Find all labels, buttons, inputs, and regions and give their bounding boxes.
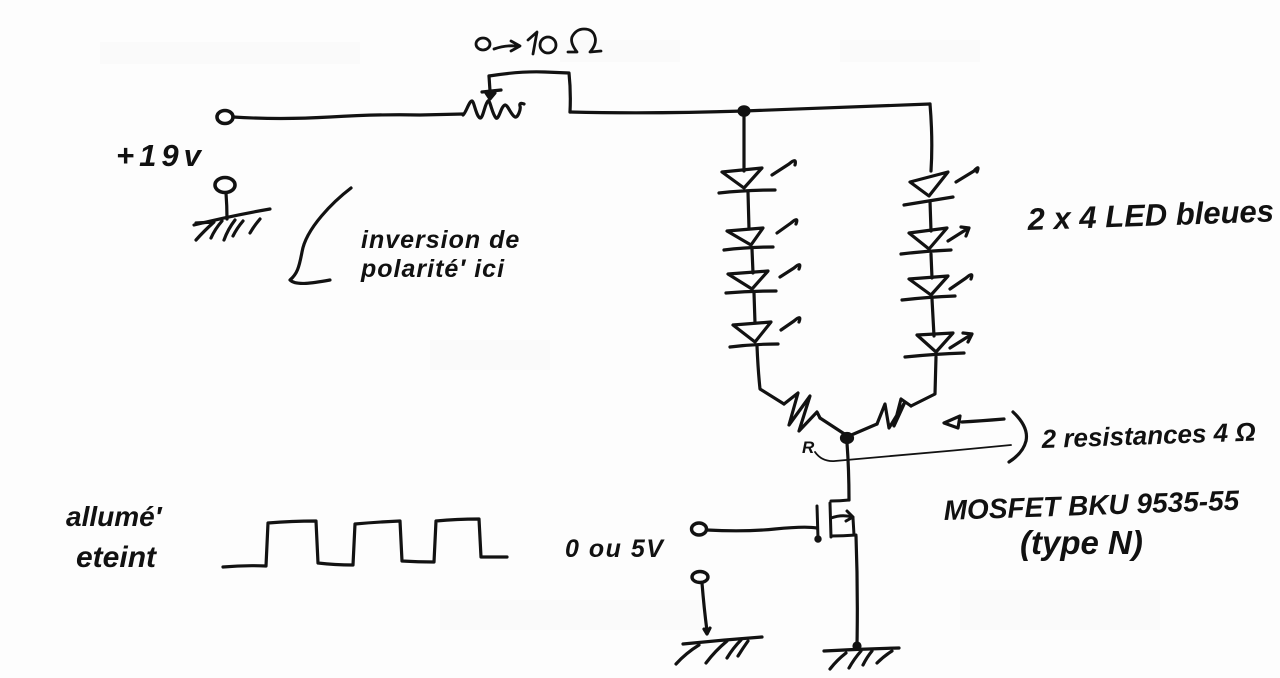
- svg-text:MOSFET BKU 9535-55: MOSFET BKU 9535-55: [943, 485, 1240, 526]
- LED D7: [902, 275, 972, 300]
- svg-text:2 x 4 LED bleues: 2 x 4 LED bleues: [1026, 193, 1274, 237]
- terminal gate input: [692, 523, 707, 535]
- wire resistor to node: [820, 418, 846, 435]
- wire: [931, 254, 932, 278]
- wire bus corner down to right string: [930, 104, 932, 171]
- terminal input +19V: [217, 111, 233, 124]
- bracket ) annotation: [1009, 412, 1026, 462]
- resistor R2 4 ohm (left): [784, 393, 820, 431]
- svg-text:2 resistances 4 Ω: 2 resistances 4 Ω: [1040, 417, 1256, 454]
- node R junction: [842, 434, 853, 443]
- label 0 to 10 ohm: [476, 29, 601, 54]
- ground (+19V reference) terminal: [215, 178, 235, 193]
- LED D4: [730, 318, 800, 347]
- LED D3: [726, 265, 800, 293]
- svg-text:allumé′: allumé′: [66, 501, 163, 532]
- resistor R3 4 ohm (right): [877, 399, 911, 428]
- annotation bracket (inversion de polarite): [290, 188, 351, 283]
- svg-text:(type N): (type N): [1020, 524, 1143, 561]
- ground (gate reference): [676, 637, 762, 664]
- wire: [748, 192, 749, 229]
- wire top bus: [570, 104, 930, 113]
- svg-text:R: R: [802, 438, 815, 457]
- node junction left string: [739, 107, 749, 115]
- transistor Q1 MOSFET: [816, 500, 856, 541]
- ground (+19V reference): [194, 209, 270, 240]
- svg-text:polarité′ ici: polarité′ ici: [360, 255, 505, 283]
- square wave allume/eteint: [223, 519, 507, 567]
- wire right string to resistor: [911, 357, 936, 406]
- ground (source): [824, 648, 899, 669]
- LED D2: [724, 220, 797, 250]
- LED D6: [901, 227, 969, 254]
- wire node to MOSFET drain: [847, 443, 849, 500]
- LED D1: [719, 161, 795, 193]
- leader line from R to annotation: [815, 445, 1011, 461]
- scan shading patches: [100, 40, 1160, 630]
- LED D5: [904, 168, 978, 205]
- svg-text:0 ou 5V: 0 ou 5V: [565, 535, 665, 563]
- svg-text:eteint: eteint: [76, 541, 158, 574]
- wire node down to left string: [742, 115, 745, 171]
- LED D8: [905, 333, 972, 357]
- wire input to potentiometer: [233, 114, 463, 119]
- potentiometer wiper arrow: [482, 76, 501, 99]
- wire resistor to node: [849, 424, 877, 436]
- wire: [752, 249, 753, 273]
- svg-text:+19v: +19v: [116, 138, 206, 173]
- wire gate input: [707, 527, 817, 531]
- wire left string to resistor: [757, 346, 784, 404]
- wire wiper to top bus: [489, 72, 570, 112]
- svg-text:inversion de: inversion de: [361, 226, 520, 254]
- wire: [932, 299, 934, 336]
- wire: [754, 293, 755, 323]
- wire source to ground: [856, 536, 857, 645]
- wire: [930, 201, 931, 231]
- arrow pointing to resistors: [944, 416, 1004, 428]
- potentiometer R1 0-10 ohm: [463, 101, 524, 118]
- terminal reference below gate: [692, 572, 708, 583]
